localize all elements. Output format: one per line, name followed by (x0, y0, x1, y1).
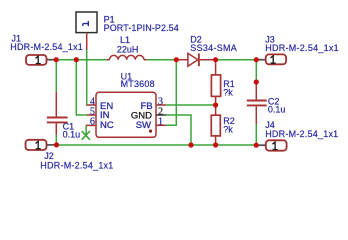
junction node GND rail (188, 142, 193, 147)
connector J1 (26, 55, 55, 65)
junction node R2 bottom (213, 142, 218, 147)
capacitor C1 (47, 92, 68, 135)
junction node D2/R1 (213, 57, 218, 62)
wire IN riser (76, 60, 87, 115)
wire SW riser (166, 60, 177, 126)
junction node J2/C1 (54, 142, 59, 147)
junction node J1/C1 (54, 57, 59, 62)
resistor R1 (211, 60, 220, 105)
U1 pin 4 EN (87, 104, 96, 106)
svg-text:MT3608: MT3608 (121, 79, 155, 89)
no-connect X (82, 131, 90, 140)
inductor L1 (107, 55, 147, 59)
svg-text:0.1u: 0.1u (63, 130, 81, 140)
diode D2 (176, 53, 215, 66)
svg-text:SS34-SMA: SS34-SMA (190, 43, 237, 53)
svg-text:HDR-M-2.54_1x1: HDR-M-2.54_1x1 (265, 43, 339, 53)
wire top rail middle (147, 59, 177, 61)
svg-text:1: 1 (158, 117, 163, 128)
svg-text:0.1u: 0.1u (268, 105, 286, 115)
junction node SW/L1/D2 (174, 57, 179, 62)
wire NC stub down (85, 125, 87, 135)
wire top rail right (216, 59, 257, 61)
U1 pin 6 NC (86, 124, 96, 126)
U1 pin 5 IN (87, 114, 96, 116)
svg-text:SW: SW (136, 120, 151, 131)
connector J4 (258, 140, 287, 150)
wire GND down (166, 115, 191, 145)
wire C2 column lower (255, 124, 257, 145)
U1 pin 3 FB (156, 104, 166, 106)
connector J2 (26, 140, 55, 150)
svg-text:HDR-M-2.54_1x1: HDR-M-2.54_1x1 (10, 42, 83, 52)
svg-text:22uH: 22uH (117, 44, 139, 54)
wire C1 column lower (55, 135, 57, 145)
U1 pin 1 SW (156, 124, 166, 126)
junction node VOUT/J3 (254, 57, 259, 62)
U1 pin 2 GND (156, 114, 166, 116)
svg-text:?k: ?k (223, 87, 233, 97)
svg-text:6: 6 (90, 117, 95, 128)
junction node C2/J4 (254, 143, 259, 148)
capacitor C2 (247, 82, 267, 124)
svg-text:NC: NC (100, 120, 114, 131)
svg-text:?k: ?k (223, 125, 233, 135)
svg-text:PORT-1PIN-P2.54: PORT-1PIN-P2.54 (104, 23, 179, 33)
svg-text:HDR-M-2.54_1x1: HDR-M-2.54_1x1 (265, 129, 338, 139)
svg-text:HDR-M-2.54_1x1: HDR-M-2.54_1x1 (40, 160, 113, 170)
connector J3 (258, 54, 286, 64)
wire top rail left (54, 59, 107, 61)
port P1 (76, 12, 97, 50)
junction node IN riser (74, 57, 79, 62)
wire C1 column upper (55, 60, 57, 92)
wire FB (166, 104, 216, 106)
wire bottom rail (55, 144, 257, 146)
IC U1 MT3608 body (96, 92, 156, 137)
wire P1 to EN (86, 49, 89, 105)
junction node FB/R1/R2 (213, 102, 218, 107)
resistor R2 (211, 105, 220, 145)
wire C2 column upper (255, 60, 257, 82)
U1 polarity dot (149, 130, 152, 133)
junction node C2 top (254, 79, 259, 84)
